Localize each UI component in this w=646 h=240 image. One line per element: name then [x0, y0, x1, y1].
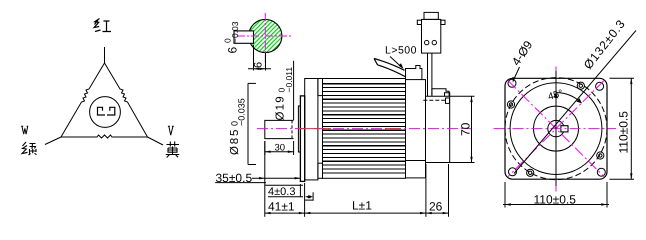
connector pin right	[432, 40, 436, 44]
shaft	[265, 120, 294, 138]
svg-text:30: 30	[275, 142, 286, 153]
delta winding diagram	[45, 47, 163, 145]
dim 30	[265, 141, 294, 155]
svg-text:41±1: 41±1	[268, 200, 295, 214]
centerline horizontal	[237, 35, 291, 37]
pulse symbol right	[107, 107, 115, 115]
hidden screw	[446, 98, 450, 103]
keyway slot	[234, 31, 254, 43]
side view	[265, 79, 406, 182]
label hong (red)	[94, 19, 111, 32]
front view	[505, 78, 607, 180]
bolt circle dashed	[505, 78, 607, 180]
svg-text:110±0.5: 110±0.5	[534, 193, 577, 207]
connector body	[422, 19, 441, 53]
key cross-section	[561, 126, 568, 132]
node lead V (bottom-right)	[148, 137, 164, 145]
winding right side with coil zigzag	[105, 63, 148, 137]
small hole bottom	[527, 169, 534, 176]
connector boss	[432, 89, 449, 97]
mounting hole TR	[596, 82, 604, 90]
cable gland boss	[406, 66, 422, 80]
pulse symbol left	[98, 107, 106, 115]
dim 45° arc	[556, 93, 582, 104]
dim 110±0.5 right	[610, 78, 635, 179]
front view centerlines	[494, 67, 617, 194]
svg-text:4±0.3: 4±0.3	[268, 186, 295, 198]
keyway depth dim 6	[253, 45, 255, 71]
dim Ø19	[293, 61, 295, 120]
svg-text:110±0.5: 110±0.5	[617, 111, 631, 154]
connector pin left	[425, 40, 429, 44]
mounting hole BL	[509, 168, 517, 176]
svg-text:26: 26	[429, 200, 443, 214]
svg-text:L±1: L±1	[352, 199, 372, 213]
hall sensor circle	[90, 97, 121, 128]
centerline vertical	[264, 13, 266, 66]
label huang (yellow)	[166, 142, 180, 158]
45 deg reference vertical	[555, 71, 557, 186]
svg-text:L>500: L>500	[385, 45, 417, 57]
svg-text:−0.011: −0.011	[284, 67, 294, 93]
shaft boss	[298, 106, 300, 152]
cap chamfer step	[445, 93, 450, 97]
winding left side with coil zigzag	[61, 63, 105, 137]
cooling fins	[323, 84, 406, 173]
svg-text:Ø85: Ø85	[229, 128, 241, 155]
bracket step line	[406, 160, 426, 162]
connector tab right	[441, 20, 445, 24]
connector stem	[428, 53, 432, 96]
front plate	[300, 96, 304, 181]
dim 4±0.3 flange thickness	[268, 184, 303, 197]
body circle	[510, 83, 602, 175]
winding bottom side with coil zigzag	[61, 135, 148, 138]
shaft circle	[548, 120, 564, 136]
keyway hidden line	[291, 120, 293, 138]
connector cap	[424, 12, 438, 19]
mounting hole TL	[508, 79, 516, 87]
svg-text:70: 70	[459, 122, 473, 136]
rib bottom	[318, 163, 323, 178]
connector tab left	[417, 20, 421, 24]
rear bracket	[406, 80, 426, 178]
node lead U (top)	[104, 47, 106, 63]
svg-text:35±0.5: 35±0.5	[216, 171, 253, 185]
svg-text:−0.035: −0.035	[237, 98, 247, 126]
shaft section circle green hatch	[249, 19, 282, 52]
flange square	[505, 78, 607, 179]
45 deg diagonal / Ø132 leader	[514, 31, 636, 174]
centerline side view	[257, 128, 472, 130]
dim 70	[450, 96, 475, 162]
svg-text:Ø19: Ø19	[275, 95, 287, 120]
small hole top	[577, 82, 584, 89]
svg-text:6: 6	[253, 62, 265, 68]
mounting hole BR	[597, 168, 605, 176]
node lead W (bottom-left)	[45, 137, 61, 145]
small hole left	[507, 101, 514, 108]
fin block	[323, 79, 406, 179]
svg-text:6: 6	[226, 47, 240, 54]
dim 35±0.5	[215, 178, 303, 185]
rear cap	[426, 96, 450, 162]
label W	[21, 126, 28, 134]
cable	[374, 59, 406, 78]
spigot circle	[534, 106, 579, 151]
label V	[168, 126, 174, 135]
hidden screw line	[423, 99, 445, 101]
front bell	[305, 79, 318, 180]
label lv (green)	[22, 142, 37, 155]
dim Ø85	[247, 83, 249, 164]
dim 110±0.5 bottom	[503, 182, 609, 208]
rib top	[318, 79, 323, 96]
svg-text:−0.03: −0.03	[230, 21, 240, 43]
bottom dim row 41±1 / L±1 / 26	[265, 141, 449, 217]
small hole right	[597, 152, 604, 159]
shaft section detail (2:1)	[223, 13, 292, 71]
